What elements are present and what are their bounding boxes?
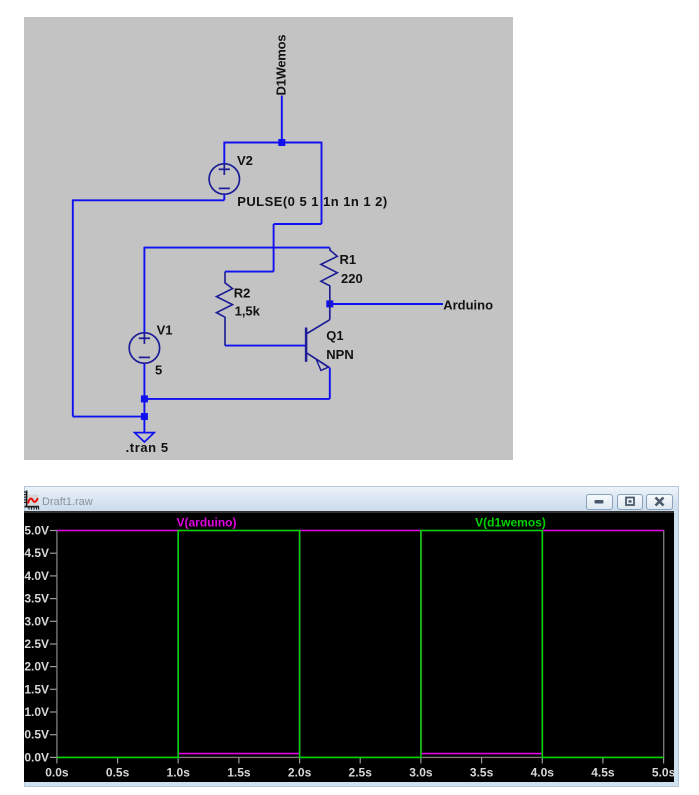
svg-text:V1: V1: [157, 323, 173, 338]
svg-text:5: 5: [155, 363, 162, 378]
wire emitter vertical: [329, 368, 331, 399]
junction ground node: [141, 413, 148, 420]
wire bottom left horizontal: [73, 416, 145, 418]
svg-text:D1Wemos: D1Wemos: [273, 35, 288, 96]
svg-text:R1: R1: [340, 252, 357, 267]
y axis ticks: [50, 531, 57, 758]
svg-text:0.0s: 0.0s: [45, 766, 69, 780]
x axis ticks: [56, 757, 663, 763]
waveform window frame: [24, 486, 679, 787]
voltage source V2: [209, 164, 239, 195]
junction Arduino node: [326, 300, 333, 307]
svg-text:4.0V: 4.0V: [24, 569, 49, 583]
svg-text:R2: R2: [234, 286, 251, 301]
svg-text:1.5s: 1.5s: [227, 766, 251, 780]
wire V2 bottom: [223, 194, 225, 200]
svg-text:3.0s: 3.0s: [409, 766, 433, 780]
wire node Arduino: [330, 303, 443, 305]
svg-text:3.5s: 3.5s: [469, 766, 493, 780]
resistor R1 body: [321, 248, 337, 304]
wire left vertical: [72, 199, 74, 416]
svg-text:220: 220: [341, 271, 363, 286]
wire jog vertical to R2: [273, 224, 275, 272]
title bar: [25, 487, 678, 511]
voltage source V1: [129, 333, 159, 363]
ground: [135, 433, 155, 442]
plot black area: [24, 511, 674, 782]
svg-text:1.0V: 1.0V: [24, 705, 49, 719]
svg-text:1,5k: 1,5k: [235, 304, 261, 319]
svg-text:.tran 5: .tran 5: [126, 440, 169, 455]
svg-text:4.0s: 4.0s: [530, 766, 554, 780]
wire V2 top: [223, 142, 225, 164]
svg-text:V2: V2: [237, 153, 253, 168]
svg-text:V(d1wemos): V(d1wemos): [475, 516, 546, 530]
svg-text:2.5s: 2.5s: [348, 766, 372, 780]
wire right vertical from V2 net: [321, 142, 323, 224]
svg-text:1.0s: 1.0s: [166, 766, 190, 780]
svg-text:5.0s: 5.0s: [651, 766, 673, 780]
svg-text:V(arduino): V(arduino): [176, 516, 236, 530]
wire minus horizontal: [73, 199, 225, 201]
wire jog horizontal: [274, 223, 322, 225]
svg-text:0.5s: 0.5s: [105, 766, 129, 780]
resistor R2 body: [217, 272, 233, 346]
svg-text:PULSE(0 5 1 1n 1n 1 2): PULSE(0 5 1 1n 1n 1 2): [237, 194, 387, 209]
wire base horizontal: [225, 345, 306, 347]
trace V(arduino): [56, 531, 663, 754]
transistor Q1: [306, 304, 330, 370]
trace V(d1wemos): [56, 531, 663, 758]
junction D1Wemos node: [278, 139, 285, 146]
wire net D1Wemos lead: [281, 96, 283, 143]
svg-text:0.0V: 0.0V: [24, 750, 49, 764]
junction emitter return node: [141, 395, 148, 402]
svg-text:2.0V: 2.0V: [24, 660, 49, 674]
svg-text:Arduino: Arduino: [443, 298, 493, 313]
wire supply rail horizontal: [144, 247, 329, 249]
schematic background: [24, 17, 513, 460]
wire V1 bottom vertical to ground: [143, 363, 145, 432]
wire top horizontal: [224, 142, 321, 144]
wire R2 top horizontal: [225, 271, 274, 273]
svg-text:1.5V: 1.5V: [24, 682, 49, 696]
close button: [646, 494, 673, 510]
svg-text:4.5s: 4.5s: [591, 766, 615, 780]
svg-text:0.5V: 0.5V: [24, 728, 49, 742]
svg-text:Q1: Q1: [326, 328, 343, 343]
svg-text:5.0V: 5.0V: [24, 524, 49, 538]
wire V1 top vertical: [143, 247, 145, 333]
title bar icon: [24, 490, 40, 510]
restore button: [617, 494, 644, 510]
svg-text:2.0s: 2.0s: [287, 766, 311, 780]
plot border: [56, 531, 663, 758]
minimize button: [586, 494, 613, 510]
svg-text:3.5V: 3.5V: [24, 592, 49, 606]
svg-text:NPN: NPN: [326, 347, 353, 362]
svg-text:3.0V: 3.0V: [24, 614, 49, 628]
title text: [42, 496, 93, 508]
svg-text:4.5V: 4.5V: [24, 546, 49, 560]
svg-text:2.5V: 2.5V: [24, 637, 49, 651]
wire emitter return horizontal: [144, 398, 329, 400]
